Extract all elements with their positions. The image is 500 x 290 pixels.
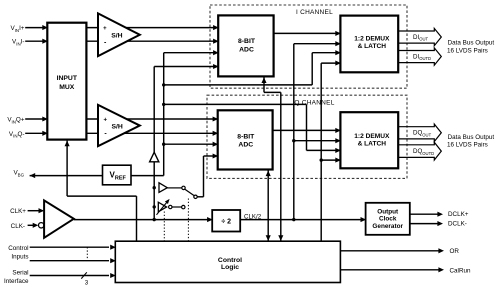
svg-text:Q CHANNEL: Q CHANNEL (294, 99, 334, 106)
svg-text:ADC: ADC (238, 142, 253, 149)
svg-text:CLK+: CLK+ (10, 208, 26, 215)
svg-text:÷ 2: ÷ 2 (221, 219, 231, 226)
svg-text:Serial: Serial (12, 269, 28, 276)
svg-text:16 LVDS Pairs: 16 LVDS Pairs (447, 47, 488, 54)
svg-text:S/H: S/H (112, 124, 123, 131)
svg-text:Control: Control (8, 245, 28, 252)
svg-text:VINQ+: VINQ+ (7, 117, 25, 125)
svg-text:Inputs: Inputs (11, 253, 28, 260)
svg-text:S/H: S/H (111, 32, 122, 39)
svg-text:I CHANNEL: I CHANNEL (296, 9, 333, 16)
svg-text:DCLK-: DCLK- (448, 221, 467, 228)
svg-text:1:2 DEMUX: 1:2 DEMUX (354, 36, 390, 43)
svg-text:CLK-: CLK- (11, 223, 25, 230)
svg-text:& LATCH: & LATCH (358, 43, 387, 50)
svg-text:16 LVDS Pairs: 16 LVDS Pairs (447, 142, 488, 149)
svg-text:Data Bus Output: Data Bus Output (448, 40, 495, 47)
svg-text:+: + (103, 26, 107, 32)
svg-text:INPUT: INPUT (57, 75, 78, 82)
svg-text:Logic: Logic (221, 264, 239, 271)
svg-text:Interface: Interface (4, 278, 29, 285)
svg-text:CLK/2: CLK/2 (244, 213, 262, 220)
svg-text:CalRun: CalRun (450, 267, 471, 274)
svg-text:& LATCH: & LATCH (358, 140, 387, 147)
svg-text:Output: Output (377, 208, 399, 215)
svg-text:3: 3 (85, 280, 89, 287)
svg-text:Control: Control (218, 257, 242, 264)
svg-text:OR: OR (450, 248, 460, 255)
svg-text:MUX: MUX (59, 84, 75, 91)
svg-text:1:2 DEMUX: 1:2 DEMUX (354, 133, 390, 140)
svg-text:8-BIT: 8-BIT (237, 133, 255, 140)
svg-text:Generator: Generator (372, 223, 403, 230)
svg-text:VINQ-: VINQ- (9, 131, 25, 139)
svg-text:Data Bus Output: Data Bus Output (448, 134, 495, 141)
svg-text:Clock: Clock (379, 216, 397, 223)
svg-text:+: + (103, 117, 107, 123)
svg-text:ADC: ADC (239, 46, 254, 53)
svg-text:DCLK+: DCLK+ (448, 211, 469, 218)
svg-text:8-BIT: 8-BIT (238, 38, 256, 45)
